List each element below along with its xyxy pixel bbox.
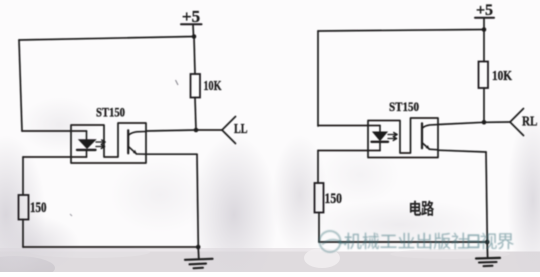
svg-text:+5: +5 (182, 7, 200, 26)
svg-text:+5: +5 (476, 2, 493, 19)
svg-text:RL: RL (522, 114, 538, 129)
svg-text:150: 150 (30, 200, 47, 216)
svg-text:ST150: ST150 (389, 99, 419, 114)
svg-text:10K: 10K (492, 69, 512, 84)
svg-text:LL: LL (234, 121, 248, 136)
svg-text:ST150: ST150 (96, 105, 125, 120)
svg-text:10K: 10K (204, 79, 222, 94)
svg-text:150: 150 (325, 191, 343, 207)
